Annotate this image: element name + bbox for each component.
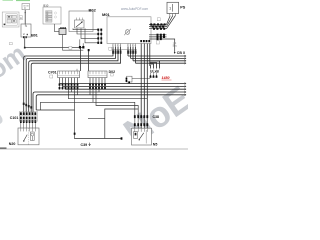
- svg-text:A: A: [20, 16, 22, 20]
- svg-text:C101: C101: [10, 116, 19, 120]
- svg-text:B02: B02: [89, 8, 97, 13]
- svg-text:1480: 1480: [162, 76, 170, 80]
- svg-text:B10: B10: [43, 4, 48, 8]
- svg-text:1 P: 1 P: [173, 43, 177, 46]
- svg-text:C#01: C#01: [48, 71, 57, 75]
- svg-text:M01: M01: [102, 12, 111, 17]
- svg-text:CB X: CB X: [177, 51, 186, 55]
- svg-text:C38: C38: [153, 115, 159, 119]
- svg-text:www.AutoPDF.com: www.AutoPDF.com: [121, 7, 148, 11]
- svg-text:C39: C39: [81, 143, 88, 147]
- svg-text:N20: N20: [9, 142, 16, 146]
- svg-text:B01: B01: [31, 33, 38, 37]
- svg-text:PS: PS: [180, 6, 186, 10]
- svg-text:ULxB: ULxB: [150, 69, 159, 73]
- svg-text:N5: N5: [153, 142, 158, 146]
